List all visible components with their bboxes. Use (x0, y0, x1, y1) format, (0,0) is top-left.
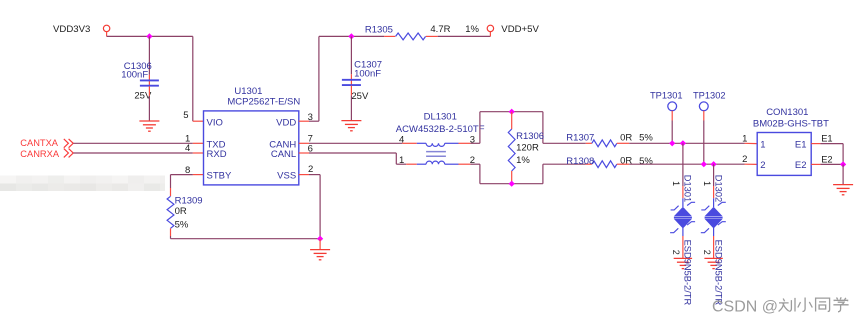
resistor R1307 (566, 132, 653, 146)
wire CON ground (842, 164, 844, 184)
svg-text:5: 5 (183, 110, 188, 121)
svg-text:ESD9N5B-2/TR: ESD9N5B-2/TR (713, 240, 723, 306)
power port VDD+5V (487, 24, 539, 35)
wire CANRXA-RXD (73, 143, 203, 154)
svg-text:BM02B-GHS-TBT: BM02B-GHS-TBT (753, 118, 829, 129)
svg-text:0R: 0R (175, 206, 187, 217)
capacitor C1306 (121, 61, 159, 102)
svg-text:25V: 25V (351, 91, 369, 102)
node TP1301 junction (669, 140, 675, 146)
svg-text:CANL: CANL (271, 149, 296, 160)
wire CANL detour (470, 164, 585, 184)
svg-text:120R: 120R (516, 143, 539, 154)
svg-text:TP1301: TP1301 (650, 90, 683, 100)
connector CON1301 body (742, 107, 829, 176)
wire C1306 top lead (148, 36, 150, 86)
svg-text:1: 1 (742, 133, 747, 144)
svg-text:1%: 1% (516, 155, 530, 166)
wire VDD pin3 (299, 36, 385, 123)
svg-text:CSDN @: CSDN @ (712, 299, 778, 316)
choke DL1301 winding bottom (399, 155, 475, 166)
node D1302 junction (711, 161, 717, 167)
ground below C1307 (341, 121, 361, 131)
svg-text:2: 2 (742, 154, 747, 165)
svg-text:5%: 5% (639, 133, 653, 144)
node E junction (840, 161, 846, 167)
svg-text:TP1302: TP1302 (693, 90, 726, 100)
wire D1302 bottom (713, 228, 715, 258)
svg-text:2: 2 (702, 250, 712, 255)
part number D1302 (713, 240, 723, 306)
ground below CON1301 (833, 185, 853, 195)
net port CANRXA (20, 149, 73, 159)
svg-text:E2: E2 (795, 160, 807, 171)
wire VSS pin2 (299, 164, 320, 239)
choke DL1301 winding top (399, 134, 475, 146)
svg-text:R1306: R1306 (516, 131, 544, 142)
svg-text:1: 1 (399, 155, 404, 166)
test point TP1302 (693, 90, 726, 164)
resistor R1308 (566, 155, 653, 167)
wire D1302 top (713, 164, 715, 207)
watermark CSDN (712, 297, 849, 315)
wire STBY (171, 165, 204, 196)
ESD diode D1302 (701, 175, 726, 233)
svg-text:1: 1 (760, 139, 765, 150)
svg-text:E1: E1 (821, 134, 832, 144)
wire C1306 bottom lead (148, 86, 150, 121)
svg-text:VDD3V3: VDD3V3 (53, 24, 90, 35)
wire C1307 top lead (350, 36, 352, 86)
svg-text:D1301: D1301 (683, 175, 693, 202)
wire CANTXA-TXD (73, 134, 203, 145)
svg-text:4: 4 (399, 134, 404, 145)
svg-text:8: 8 (185, 165, 190, 176)
svg-text:VSS: VSS (277, 171, 296, 182)
resistor R1306 (508, 112, 544, 184)
resistor R1309 (167, 196, 203, 231)
choke DL1301 labels (396, 112, 485, 135)
svg-text:D1302: D1302 (713, 175, 723, 202)
part number D1301 (683, 240, 693, 306)
pin 1 D1302 (702, 181, 712, 186)
wire CANH pin7 (299, 134, 403, 145)
svg-text:2: 2 (671, 250, 681, 255)
ground below U1301 (310, 250, 330, 260)
svg-text:R1307: R1307 (566, 132, 594, 143)
svg-text:R1309: R1309 (175, 196, 203, 207)
svg-text:2: 2 (308, 164, 313, 175)
svg-text:5%: 5% (175, 220, 189, 231)
svg-text:R1308: R1308 (566, 156, 594, 167)
node R1306 top junction (509, 109, 515, 115)
wire E2 (811, 154, 843, 164)
svg-text:CANTXA: CANTXA (20, 138, 59, 148)
svg-text:ESD9N5B-2/TR: ESD9N5B-2/TR (683, 240, 693, 306)
resistor R1305 (365, 24, 480, 40)
svg-text:CON1301: CON1301 (766, 107, 808, 118)
svg-text:4: 4 (185, 143, 190, 154)
wire CANH to CON (629, 142, 757, 144)
wire CANH detour (470, 112, 585, 144)
svg-text:E2: E2 (821, 154, 832, 164)
svg-text:2: 2 (760, 160, 765, 171)
svg-text:CANRXA: CANRXA (20, 149, 60, 159)
net port CANTXA (20, 138, 73, 148)
ground below D1302 (704, 258, 722, 268)
svg-text:100nF: 100nF (121, 69, 148, 80)
node VSS junction (317, 236, 323, 242)
svg-text:4.7R: 4.7R (430, 24, 450, 35)
svg-text:100nF: 100nF (354, 68, 381, 79)
wire VDD3V3 rail (107, 36, 193, 121)
svg-text:ACW4532B-2-510TF: ACW4532B-2-510TF (396, 124, 485, 135)
pin 1 D1301 (671, 181, 681, 186)
svg-text:U1301: U1301 (234, 86, 262, 97)
svg-text:1: 1 (671, 181, 681, 186)
capacitor C1307 (342, 60, 382, 102)
node TP1302 junction (701, 161, 707, 167)
IC U1301 body (204, 86, 301, 185)
node VDD3V3-C1306 junction (146, 33, 152, 39)
wire CANL to CON (629, 163, 757, 165)
pin 2 D1302 (702, 250, 712, 255)
pin 5 VIO stub (183, 110, 203, 121)
pin 2 D1301 (671, 250, 681, 255)
wire R1309 bottom (171, 228, 321, 238)
svg-text:MCP2562T-E/SN: MCP2562T-E/SN (227, 97, 300, 108)
test point TP1301 (650, 90, 683, 143)
svg-text:5%: 5% (639, 156, 653, 167)
svg-text:E1: E1 (795, 139, 807, 150)
svg-text:VDD: VDD (276, 117, 296, 128)
ground below D1301 (674, 258, 692, 268)
power port VDD3V3 (53, 24, 110, 36)
wire D1301 top (682, 143, 684, 207)
svg-text:VIO: VIO (207, 117, 223, 128)
wire C1307 bottom lead (350, 86, 352, 121)
choke DL1301 core (426, 152, 446, 157)
wire R1305 to port (438, 32, 491, 37)
svg-text:STBY: STBY (207, 171, 232, 182)
blurred watermark patch (0, 176, 165, 192)
ground below C1306 (139, 121, 159, 131)
svg-text:1%: 1% (465, 24, 479, 35)
svg-text:0R: 0R (620, 132, 632, 143)
wire CANL pin6 (299, 143, 406, 164)
wire VSS ground stem (319, 239, 321, 250)
svg-text:VDD+5V: VDD+5V (501, 24, 539, 35)
wire D1301 bottom (682, 228, 684, 258)
node R1306 bottom junction (509, 181, 515, 187)
ESD diode D1301 (670, 175, 695, 233)
node D1301 junction (680, 140, 686, 146)
wire E1 (811, 134, 843, 165)
svg-text:DL1301: DL1301 (424, 112, 457, 123)
node C1307 junction (348, 33, 354, 39)
svg-text:RXD: RXD (207, 149, 227, 160)
svg-text:R1305: R1305 (365, 24, 393, 35)
svg-text:1: 1 (702, 181, 712, 186)
